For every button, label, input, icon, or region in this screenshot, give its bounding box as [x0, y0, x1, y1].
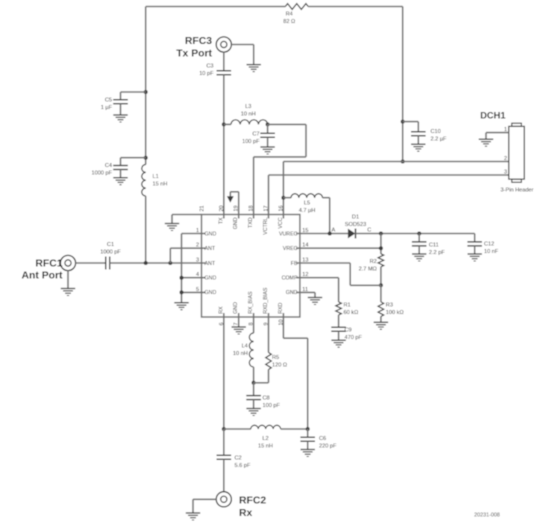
node junction C4/L1 tap — [144, 156, 148, 160]
svg-text:C8: C8 — [263, 396, 270, 402]
wire VCC rail to DCH1 pin 2 — [283, 161, 508, 163]
wire left vertical column — [145, 7, 147, 165]
wire L5 to node A — [323, 197, 330, 199]
wire pin 21 to ground — [172, 214, 202, 216]
ground DCH1 pin1 — [479, 138, 493, 140]
wire cathode rail — [356, 233, 475, 235]
svg-text:10 nH: 10 nH — [233, 351, 248, 357]
svg-text:R2: R2 — [370, 259, 377, 265]
wire right vertical to C10 node — [402, 7, 404, 162]
svg-text:60 kΩ: 60 kΩ — [344, 310, 359, 316]
capacitor C2 — [223, 429, 225, 455]
svg-text:15 nH: 15 nH — [153, 182, 168, 188]
node junction C11 — [417, 232, 421, 236]
svg-text:RFC3: RFC3 — [185, 36, 212, 47]
ground RFC3 — [247, 64, 261, 66]
svg-text:R3: R3 — [386, 303, 393, 309]
svg-text:1: 1 — [196, 228, 199, 234]
capacitor C1 — [105, 257, 107, 270]
resistor R1 — [336, 302, 342, 315]
capacitor C4 — [121, 157, 146, 159]
svg-text:470 pF: 470 pF — [345, 335, 363, 341]
svg-text:C12: C12 — [484, 242, 494, 248]
wire pin 10 RXD — [282, 313, 284, 338]
svg-text:RX_BIAS: RX_BIAS — [248, 291, 254, 314]
node junction VREC — [379, 246, 383, 250]
capacitor C7 — [267, 124, 269, 133]
svg-text:C5: C5 — [105, 98, 112, 104]
svg-text:20231-008: 20231-008 — [474, 513, 500, 519]
inductor L1 — [142, 165, 146, 197]
svg-text:1: 1 — [504, 127, 507, 133]
connector RFC2 — [216, 492, 231, 507]
capacitor C3 — [223, 52, 225, 71]
svg-text:C1: C1 — [107, 242, 114, 248]
svg-text:10 pF: 10 pF — [199, 71, 214, 77]
ground C11 — [412, 253, 426, 255]
svg-text:3: 3 — [196, 258, 199, 264]
svg-text:D1: D1 — [352, 214, 359, 220]
capacitor C11 — [418, 234, 420, 242]
svg-text:GND: GND — [205, 290, 217, 296]
svg-text:GND: GND — [286, 290, 298, 296]
svg-text:L2: L2 — [262, 436, 268, 442]
wire pin 2 ANT branch — [169, 248, 171, 263]
svg-text:C9: C9 — [345, 328, 352, 334]
ground RFC2 — [186, 512, 200, 514]
svg-text:L5: L5 — [304, 201, 310, 207]
svg-text:C: C — [367, 227, 371, 233]
svg-text:4.7 µH: 4.7 µH — [299, 208, 316, 214]
wire C3 to TX node — [223, 75, 225, 125]
node junction VCC/L5 — [281, 196, 285, 200]
wire RFC3 to ground stub — [231, 44, 253, 46]
svg-text:GND: GND — [233, 217, 239, 229]
wire pin 11 GND — [296, 291, 315, 293]
arrow pin 19 GND marker — [238, 192, 240, 219]
wire L1 to antenna node — [145, 196, 147, 263]
svg-text:2: 2 — [196, 243, 199, 249]
wire top rail right of R4 — [308, 6, 403, 8]
wire pin 14 VREC — [296, 247, 381, 249]
ground pin 7 — [232, 326, 246, 328]
node junction C5 tap — [144, 90, 148, 94]
svg-text:10 nH: 10 nH — [241, 112, 256, 118]
svg-text:VREC: VREC — [283, 246, 298, 252]
svg-text:17: 17 — [264, 205, 270, 211]
connector DCH1 3-pin header — [509, 126, 525, 179]
node junction R4/C10 — [401, 120, 405, 124]
svg-text:RX: RX — [218, 306, 224, 314]
svg-text:RFC2: RFC2 — [239, 496, 266, 507]
wire RFC2 to ground — [193, 498, 216, 500]
svg-text:GND: GND — [233, 302, 239, 314]
svg-text:1000 pF: 1000 pF — [100, 250, 121, 256]
ground C12 — [468, 253, 482, 255]
inductor L2 — [224, 428, 251, 430]
ground C4 — [113, 177, 127, 179]
capacitor C9 — [338, 315, 340, 327]
ground C9 — [331, 339, 345, 341]
node junction R2/R3/FB — [379, 283, 383, 287]
svg-text:RXD: RXD — [278, 302, 284, 313]
wire TX node to pin 20 — [223, 124, 225, 218]
capacitor C5 — [121, 91, 146, 93]
svg-text:R1: R1 — [344, 303, 351, 309]
svg-text:19: 19 — [234, 205, 240, 211]
capacitor C6 — [307, 429, 309, 437]
node junction L4/R5/C8 — [252, 381, 256, 385]
svg-text:ANT: ANT — [205, 261, 216, 267]
svg-text:Rx: Rx — [239, 508, 253, 519]
capacitor C10 — [403, 121, 419, 123]
inductor L5 — [283, 197, 291, 199]
capacitor C12 — [474, 234, 476, 242]
inductor L3 — [224, 123, 231, 125]
wire pin 8 RX_BIAS — [253, 313, 255, 333]
ground C10 — [411, 143, 425, 145]
wire pin 9 RXD_BIAS — [268, 313, 270, 353]
svg-text:R4: R4 — [286, 12, 293, 18]
op-amp U1 transceiver IC body — [202, 215, 300, 318]
svg-text:Tx Port: Tx Port — [176, 49, 212, 60]
svg-text:2.2 µF: 2.2 µF — [431, 137, 448, 143]
svg-text:100 pF: 100 pF — [242, 139, 260, 145]
node junction VCC rail — [401, 160, 405, 164]
svg-text:2: 2 — [504, 156, 507, 162]
svg-text:120 Ω: 120 Ω — [272, 363, 287, 369]
wire RFC1 to C1 — [76, 262, 106, 264]
node junction ANT pins — [168, 261, 172, 265]
svg-text:COMP: COMP — [282, 276, 298, 282]
inductor L4 — [249, 333, 253, 367]
wire L3 to TXD pin 18 — [268, 123, 306, 125]
wire pin 4 GND branch — [182, 277, 206, 279]
resistor R2 — [378, 254, 384, 267]
svg-text:L3: L3 — [245, 104, 251, 110]
svg-text:VCC: VCC — [278, 217, 284, 228]
svg-text:18: 18 — [249, 205, 255, 211]
node junction TX/L3 — [222, 122, 226, 126]
svg-text:L4: L4 — [242, 344, 248, 350]
svg-text:SOD523: SOD523 — [345, 222, 366, 228]
svg-text:C6: C6 — [319, 436, 326, 442]
wire pin 13 FB — [296, 262, 350, 264]
svg-text:C11: C11 — [429, 242, 439, 248]
svg-text:VCTRL: VCTRL — [263, 217, 269, 234]
svg-text:16: 16 — [278, 205, 284, 211]
diode D1 SOD523 — [348, 229, 355, 239]
svg-text:Ant Port: Ant Port — [22, 271, 64, 282]
svg-text:5: 5 — [196, 287, 199, 293]
ground C6 — [301, 449, 315, 451]
resistor R3 — [380, 285, 382, 302]
svg-text:TX: TX — [218, 217, 224, 224]
ground pin 11 — [308, 297, 322, 299]
resistor R4 — [285, 4, 308, 10]
svg-text:C10: C10 — [431, 129, 441, 135]
svg-text:A: A — [332, 228, 336, 234]
wire pin 12 COMP to R1 — [296, 277, 339, 279]
node junction pin4 gnd — [180, 276, 184, 280]
capacitor C8 — [253, 383, 255, 396]
ground left GND pins — [174, 302, 188, 304]
wire pin 5 GND branch — [182, 291, 206, 293]
svg-text:TXD: TXD — [248, 217, 254, 228]
ground C7 — [260, 146, 274, 148]
wire pin 15 VUREC to node A — [296, 233, 348, 235]
wire top supply rail — [146, 6, 286, 8]
svg-text:5.6 pF: 5.6 pF — [235, 463, 251, 469]
svg-text:1 µF: 1 µF — [101, 105, 113, 111]
node junction L3/C7 — [266, 122, 270, 126]
svg-text:C7: C7 — [252, 132, 259, 138]
svg-text:220 pF: 220 pF — [319, 444, 337, 450]
svg-text:20: 20 — [219, 205, 225, 211]
svg-text:4: 4 — [196, 272, 199, 278]
svg-text:3-Pin Header: 3-Pin Header — [501, 188, 534, 194]
svg-text:GND: GND — [205, 231, 217, 237]
svg-text:1000 pF: 1000 pF — [91, 171, 112, 177]
ground C8 — [246, 408, 260, 410]
ground pin 21 — [165, 223, 179, 225]
node junction cathode/R2 — [379, 232, 383, 236]
wire DCH1 pin 1 — [486, 132, 509, 134]
svg-text:2.7 MΩ: 2.7 MΩ — [359, 267, 377, 273]
svg-text:3: 3 — [504, 170, 507, 176]
svg-text:21: 21 — [200, 205, 206, 211]
connector RFC1 — [60, 255, 75, 270]
svg-text:100 pF: 100 pF — [263, 403, 281, 409]
svg-text:ANT: ANT — [205, 246, 216, 252]
wire cathode to R2 — [380, 234, 382, 254]
svg-text:2.2 pF: 2.2 pF — [429, 250, 445, 256]
svg-text:RFC1: RFC1 — [35, 259, 62, 270]
svg-text:82 Ω: 82 Ω — [283, 19, 295, 25]
ground RFC1 — [67, 271, 69, 289]
ground C5 — [113, 114, 127, 116]
svg-text:R5: R5 — [272, 355, 279, 361]
node junction L2/C6/RXD — [306, 427, 310, 431]
resistor R5 — [266, 353, 272, 370]
wire pin 6 RX down — [223, 313, 225, 429]
svg-text:VUREC: VUREC — [279, 231, 298, 237]
svg-text:10 nF: 10 nF — [484, 249, 499, 255]
svg-text:DCH1: DCH1 — [480, 111, 505, 121]
svg-text:GND: GND — [205, 276, 217, 282]
svg-text:RXD_BIAS: RXD_BIAS — [263, 287, 269, 314]
node junction RX/L2/C2 — [222, 427, 226, 431]
svg-text:15 nH: 15 nH — [258, 444, 273, 450]
wire pin 1 GND branch — [182, 233, 206, 235]
wire C1 to pin 3 ANT — [110, 262, 206, 264]
connector RFC3 — [216, 37, 231, 52]
svg-text:C3: C3 — [206, 64, 213, 70]
wire VCTRL rail to DCH1 pin 3 — [269, 174, 509, 176]
svg-text:L1: L1 — [153, 174, 159, 180]
svg-text:C2: C2 — [235, 456, 242, 462]
node A — [328, 232, 332, 236]
wire pin 7 GND — [238, 313, 240, 327]
svg-text:100 kΩ: 100 kΩ — [386, 310, 404, 316]
ground R3 — [374, 321, 388, 323]
node junction pin5 gnd — [180, 290, 184, 294]
svg-text:C4: C4 — [105, 163, 112, 169]
node junction L1/ANT — [144, 261, 148, 265]
